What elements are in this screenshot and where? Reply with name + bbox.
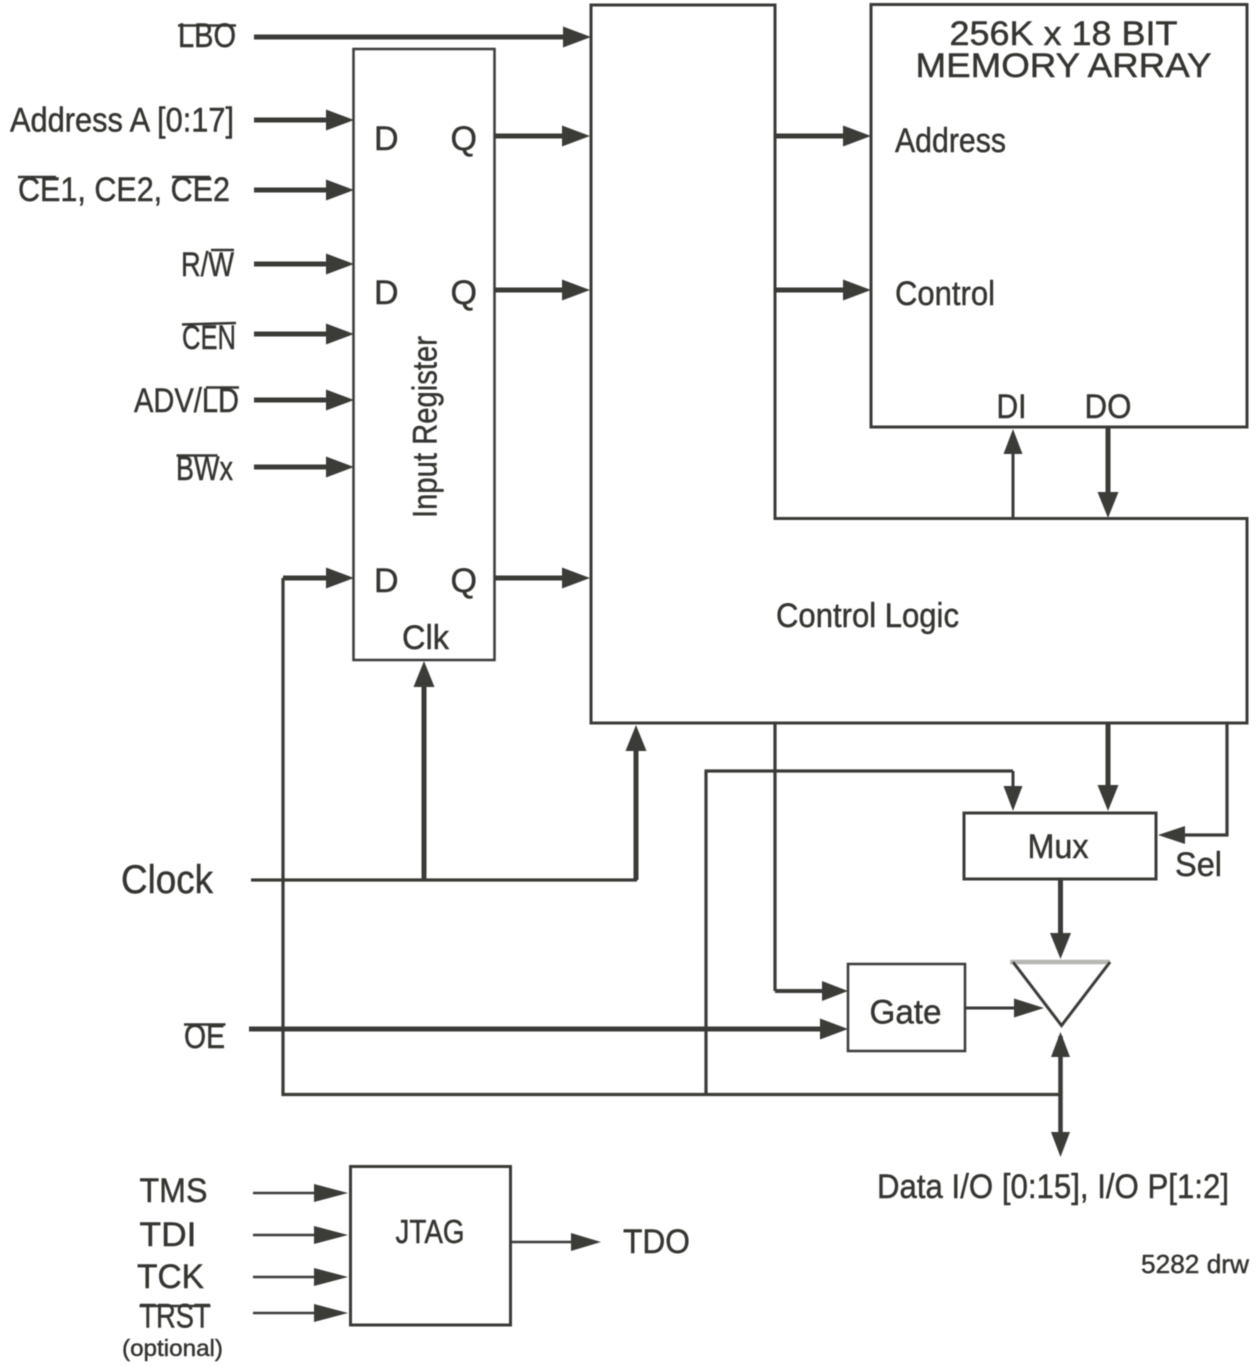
arrow ADV/LD input: [254, 390, 354, 411]
arrow clock up into control logic: [626, 725, 647, 880]
arrow data io double ended: [1051, 1032, 1070, 1157]
label TRST: [140, 1298, 211, 1336]
arrow TDI into JTAG: [253, 1226, 348, 1244]
JTAG block U6: [351, 1167, 511, 1326]
svg-text:Address A [0:17]: Address A [0:17]: [10, 102, 234, 140]
svg-text:Mux: Mux: [1028, 828, 1089, 866]
arrowhead sel into mux: [1158, 826, 1185, 844]
arrow register Q3 to control logic: [495, 568, 590, 589]
svg-text:Q: Q: [451, 562, 477, 600]
wire: vertical bus x=283 (data in riser): [281, 578, 284, 1096]
output buffer triangle U7: [1013, 962, 1110, 1026]
svg-text:TMS: TMS: [140, 1172, 208, 1210]
arrow bus into mux left: [1004, 771, 1023, 811]
svg-text:TCK: TCK: [137, 1258, 204, 1296]
svg-text:TRST: TRST: [140, 1298, 211, 1336]
arrow clock up into register clk: [414, 661, 435, 880]
arrow control to memory control: [775, 280, 871, 301]
svg-text:Sel: Sel: [1175, 846, 1222, 884]
input register block U1: [354, 49, 495, 660]
svg-text:Q: Q: [451, 274, 477, 312]
svg-text:D: D: [374, 274, 399, 312]
arrow BWx input: [254, 457, 354, 478]
label LBO: [178, 17, 236, 55]
svg-text:R/W: R/W: [181, 246, 234, 284]
svg-text:Clk: Clk: [402, 619, 450, 657]
arrow DI up into memory: [1004, 429, 1023, 518]
label CE1, CE2, CE2: [18, 171, 230, 209]
label OE: [184, 1018, 226, 1056]
arrow mux to output buffer: [1050, 879, 1071, 959]
arrow TCK into JTAG: [253, 1268, 348, 1286]
svg-text:TDI: TDI: [140, 1216, 197, 1254]
label CEN: [182, 319, 236, 357]
svg-text:5282 drw: 5282 drw: [1141, 1249, 1249, 1279]
arrow register Q2 to control logic: [495, 280, 590, 301]
wire: horizontal mux feed y=771: [705, 769, 1014, 772]
svg-text:D: D: [374, 562, 399, 600]
arrow data into register D3: [283, 568, 354, 589]
control logic block U3: [591, 5, 1247, 723]
svg-text:JTAG: JTAG: [396, 1213, 465, 1250]
arrow TDO out of JTAG: [511, 1233, 601, 1251]
arrow R/W input: [254, 254, 354, 275]
svg-text:LBO: LBO: [178, 17, 236, 55]
svg-text:MEMORY ARRAY: MEMORY ARRAY: [916, 47, 1212, 85]
label ADV/LD: [134, 382, 239, 420]
wire: clock line: [251, 878, 637, 881]
mux block U4: [964, 813, 1156, 879]
svg-text:Clock: Clock: [121, 858, 214, 902]
label BWx: [176, 450, 233, 488]
arrow gate to output buffer: [965, 999, 1044, 1018]
wire: sel line from control logic: [1183, 723, 1227, 835]
wire: vertical riser x=706 to mux feed: [704, 771, 707, 1093]
svg-text:Input Register: Input Register: [407, 336, 445, 518]
arrow control to memory address: [775, 126, 871, 147]
gate block U5: [848, 964, 965, 1051]
svg-text:Data I/O [0:15], I/O P[1:2]: Data I/O [0:15], I/O P[1:2]: [877, 1168, 1229, 1206]
arrow TRST into JTAG: [253, 1304, 348, 1322]
label R/W: [181, 246, 234, 284]
arrow control to mux: [1098, 723, 1119, 811]
arrow OE into gate: [249, 1019, 848, 1040]
svg-text:(optional): (optional): [122, 1335, 223, 1361]
arrow TMS into JTAG: [253, 1184, 348, 1202]
svg-text:DI: DI: [997, 388, 1027, 426]
memory array block U2: [871, 5, 1247, 428]
arrow Address A input: [254, 110, 354, 131]
arrow CEN input: [254, 324, 354, 345]
wire: control to gate vertical: [773, 723, 776, 991]
arrow DO down into control logic: [1098, 427, 1119, 518]
svg-text:Control Logic: Control Logic: [776, 597, 959, 635]
svg-text:Gate: Gate: [870, 994, 942, 1032]
arrow control into gate: [775, 981, 848, 1001]
svg-text:DO: DO: [1085, 388, 1132, 426]
arrow register Q1 to control logic: [495, 126, 590, 147]
arrow CE input: [254, 180, 354, 201]
svg-text:Q: Q: [451, 120, 477, 158]
wire: horizontal bus y=1095: [282, 1093, 1061, 1096]
svg-text:D: D: [374, 120, 399, 158]
svg-text:Control: Control: [895, 275, 995, 313]
arrow LBO into control logic: [254, 27, 591, 48]
svg-text:Address: Address: [895, 122, 1006, 160]
svg-text:TDO: TDO: [623, 1223, 690, 1261]
output buffer triangle top edge: [1010, 960, 1110, 965]
